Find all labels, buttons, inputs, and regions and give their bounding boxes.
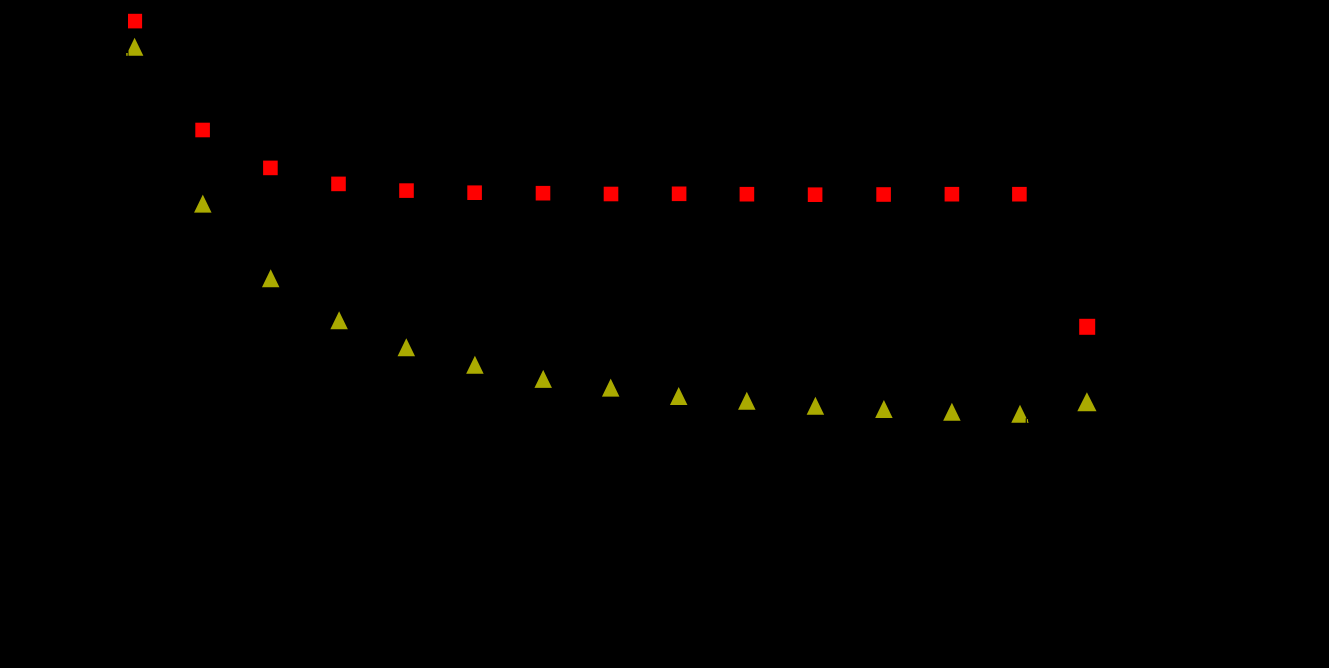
series 2 (olive triangles) point 14 (1011, 405, 1029, 423)
series 2 (olive triangles) point 6 (466, 356, 484, 374)
series 1 (red squares) point 4 (331, 177, 346, 192)
legend marker red square (1079, 319, 1095, 335)
series 1 (red squares) point 10 (740, 187, 755, 202)
small olive tick right of series 2 point 14 (1027, 419, 1028, 423)
series 2 (olive triangles) point 7 (534, 370, 552, 388)
series 1 (red squares) point 6 (467, 185, 482, 200)
series 2 (olive triangles) point 4 (330, 311, 348, 329)
series 2 (olive triangles) point 8 (602, 379, 620, 397)
series 1 (red squares) point 5 (399, 183, 414, 198)
series 2 (olive triangles) point 12 (875, 400, 893, 418)
series 1 (red squares) point 9 (672, 187, 687, 202)
series 1 (red squares) point 11 (808, 187, 823, 202)
series 1 (red squares) point 1 (128, 14, 143, 29)
series 1 (red squares) point 2 (195, 123, 210, 138)
series 2 (olive triangles) point 13 (943, 403, 961, 421)
series 2 (olive triangles) point 9 (670, 387, 688, 405)
series 1 (red squares) point 13 (945, 187, 960, 202)
series 2 (olive triangles) point 1 (126, 38, 144, 56)
series 1 (red squares) point 7 (536, 186, 551, 201)
series 1 (red squares) point 12 (876, 187, 891, 202)
series 2 (olive triangles) point 5 (398, 338, 416, 356)
series 1 (red squares) point 8 (604, 187, 619, 202)
legend marker olive triangle (1077, 392, 1096, 411)
series 1 (red squares) point 3 (263, 161, 278, 176)
series 2 (olive triangles) point 10 (738, 392, 756, 410)
small olive tick left of series 2 point 1 (126, 53, 128, 56)
series 2 (olive triangles) point 3 (262, 269, 280, 287)
series 2 (olive triangles) point 11 (807, 397, 825, 415)
series 2 (olive triangles) point 2 (194, 195, 212, 213)
black gap notch at right base corner of point 14 (1026, 418, 1027, 423)
series 1 (red squares) point 14 (1012, 187, 1027, 202)
